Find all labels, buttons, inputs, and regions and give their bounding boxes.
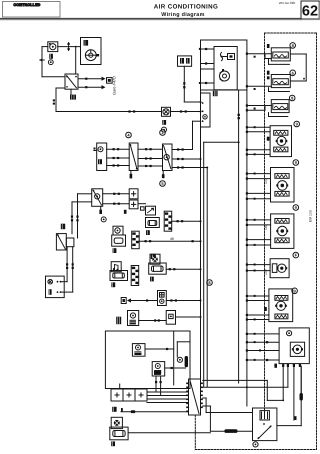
clock unit bbox=[111, 262, 121, 272]
connector strip CS2 bbox=[132, 231, 140, 249]
switch row junctions bbox=[113, 148, 184, 168]
wire CS2 to bus bbox=[139, 237, 200, 243]
fuse at unit base bbox=[213, 91, 218, 96]
aspirator label bbox=[116, 317, 121, 325]
clutch value label bbox=[49, 54, 53, 59]
svg-text:Wiring diagram: Wiring diagram bbox=[161, 12, 204, 18]
K3 pin bbox=[130, 171, 133, 179]
label 49 bbox=[151, 254, 156, 259]
display unit B bbox=[149, 263, 167, 274]
probe unit bbox=[166, 311, 200, 325]
page number box 62 bbox=[301, 1, 320, 20]
resistor pack 1 bbox=[246, 44, 290, 64]
node 8 circled on bus bbox=[207, 280, 213, 286]
node 8b circled bbox=[289, 95, 295, 101]
wire display B to bus bbox=[166, 268, 200, 270]
condenser fan bottom pins bbox=[247, 364, 301, 420]
svg-text:160: 160 bbox=[264, 224, 268, 230]
fuse cell block bbox=[111, 384, 147, 401]
wire connector top loop bbox=[203, 380, 283, 400]
wire CS1 to bus bbox=[172, 220, 201, 222]
svg-text:48: 48 bbox=[170, 237, 174, 241]
resistor pack 2 bbox=[246, 71, 290, 92]
node 8a circled bbox=[290, 43, 296, 49]
node M circled bbox=[177, 357, 182, 362]
label R bbox=[146, 230, 150, 235]
wire aspirator to probe bbox=[139, 319, 167, 321]
fan motor unit 3 bbox=[246, 214, 294, 249]
sensor pod bbox=[113, 226, 123, 235]
fuse block label bbox=[112, 407, 116, 412]
relay block K2 bbox=[201, 93, 211, 127]
node 6 circled bbox=[290, 70, 296, 76]
bus junction dots bbox=[200, 101, 248, 388]
fan symbol unit bbox=[150, 254, 160, 264]
svg-text:AIR CONDITIONING: AIR CONDITIONING bbox=[154, 4, 219, 11]
relay label BL bbox=[70, 89, 76, 99]
relay K4 bbox=[56, 234, 74, 250]
svg-text:EM 103: EM 103 bbox=[309, 210, 313, 222]
svg-text:100: 100 bbox=[264, 178, 268, 184]
label M bbox=[162, 120, 166, 125]
compressor clutch bbox=[48, 42, 58, 52]
feed line F pin marks bbox=[238, 114, 240, 119]
harness wires to connector bbox=[147, 376, 189, 403]
node 9c circled bbox=[293, 205, 299, 211]
pump motor unit bbox=[246, 259, 289, 278]
svg-text:100: 100 bbox=[264, 269, 268, 275]
arrow 1 tag bbox=[107, 78, 113, 84]
aspirator sensor bbox=[128, 311, 139, 326]
label B2 bbox=[150, 277, 154, 282]
wire junction down to relay bbox=[75, 46, 77, 74]
node X circled bbox=[253, 442, 258, 447]
node 5 circled bbox=[160, 181, 166, 187]
svg-text:CONTROLLED: CONTROLLED bbox=[14, 3, 41, 7]
antifreeze relay bbox=[253, 408, 277, 441]
node 9a circled bbox=[294, 121, 300, 127]
ignition switch symbol bbox=[220, 53, 234, 61]
relay R1 bbox=[65, 74, 78, 89]
bulkhead connector pins right bbox=[201, 383, 203, 409]
wire relay to main bus bbox=[53, 88, 162, 113]
ignition supply unit outline bbox=[201, 40, 247, 90]
svg-text:62: 62 bbox=[302, 4, 318, 20]
CONTROLLED title box bbox=[3, 2, 61, 18]
header rule bbox=[0, 19, 302, 20]
label C bbox=[111, 441, 115, 446]
condenser fan assembly bbox=[246, 328, 310, 364]
node F circled bbox=[293, 252, 299, 258]
svg-text:Gare F4TD: Gare F4TD bbox=[113, 76, 117, 95]
node 4 circled bbox=[126, 132, 132, 138]
main bus right bbox=[206, 168, 208, 388]
rheostat bbox=[138, 204, 156, 215]
harness label bbox=[154, 371, 161, 375]
wire twin sensor to bus bbox=[166, 299, 200, 301]
thermostat unit T1 bbox=[46, 276, 73, 298]
display unit A bbox=[110, 271, 128, 281]
wire TU down to relay block bbox=[183, 66, 200, 102]
node 1 circled bbox=[160, 130, 166, 136]
heater wires internal bbox=[145, 331, 190, 385]
compressor unit N bbox=[81, 38, 102, 65]
resistor module R bbox=[146, 218, 160, 228]
wire sensor to relay block bbox=[171, 110, 201, 112]
display unit C bbox=[110, 427, 128, 440]
relay right wire to fan motor bbox=[277, 366, 303, 426]
wire K2 to switch row bbox=[193, 121, 201, 149]
heater assembly box bbox=[105, 331, 190, 389]
switch S2 bbox=[163, 144, 173, 171]
fan motor unit 4 bbox=[246, 289, 293, 322]
svg-text:vnx·su·info: vnx·su·info bbox=[279, 1, 296, 5]
node B2 circled bbox=[101, 217, 106, 222]
connector strip CS1 bbox=[164, 211, 172, 231]
inline sensor M on bus bbox=[162, 107, 171, 116]
feed line F bbox=[238, 90, 240, 383]
heater fan sensor 1 bbox=[132, 344, 145, 357]
ignition unit internal feeds bbox=[199, 48, 214, 84]
control module TU bbox=[178, 56, 192, 66]
node 9d circled bbox=[292, 288, 298, 294]
relay K4 label bbox=[61, 224, 65, 230]
bulkhead connector pins left bbox=[186, 383, 188, 413]
thermal fuse capsule bbox=[185, 356, 188, 367]
twin sensor unit bbox=[158, 291, 167, 306]
node P below clutch bbox=[48, 60, 53, 65]
arrow feed 1 bbox=[78, 77, 106, 81]
supply bus bbox=[246, 90, 248, 406]
wire connector to relay feed 1 bbox=[203, 398, 253, 413]
S3 wires left pair bbox=[71, 194, 92, 238]
arrow feed left bbox=[121, 298, 157, 304]
blower control switch S1 bbox=[94, 143, 107, 171]
S3 pin bbox=[99, 206, 102, 214]
wire clutch to compressor bbox=[58, 43, 81, 51]
connector strip CS3 bbox=[131, 266, 139, 286]
label A2 bbox=[111, 282, 115, 287]
switch row wiring bbox=[107, 149, 208, 167]
main bus left bbox=[200, 90, 202, 385]
svg-text:F: F bbox=[295, 253, 298, 258]
heater fan sensor 2 bbox=[152, 362, 165, 376]
wire lower feed bbox=[121, 408, 189, 413]
page title bbox=[154, 4, 219, 18]
wire connector to bus bbox=[203, 386, 247, 388]
label A bbox=[113, 248, 117, 253]
relay K3 bbox=[129, 143, 138, 171]
wire connector to relay feed 2 bbox=[203, 406, 253, 433]
sensor pod body A bbox=[112, 235, 126, 246]
fan motor unit 2 bbox=[246, 168, 294, 203]
link resistor pack 1 to 2 bbox=[290, 54, 306, 81]
ignition motor C bbox=[220, 69, 230, 81]
bulkhead connector bbox=[189, 379, 201, 415]
connector C2 bbox=[129, 200, 138, 209]
S3 output wires right bbox=[103, 193, 130, 205]
S2 pin bbox=[162, 171, 165, 179]
connector C1 bbox=[129, 189, 138, 199]
wire clutch left branch bbox=[40, 47, 65, 77]
S3 sub pin bbox=[124, 210, 127, 214]
wire display C right bbox=[128, 432, 210, 434]
node B circled bbox=[162, 127, 167, 132]
AC switch S3 bbox=[92, 189, 103, 207]
fan unit 2 bbox=[111, 417, 122, 428]
resistor pack 3 bbox=[246, 100, 289, 117]
K4 wires down pair bbox=[66, 247, 74, 292]
arrow feed 2 bbox=[78, 85, 106, 89]
fan motor unit 1 bbox=[246, 126, 292, 157]
node 9b circled bbox=[293, 160, 299, 166]
dashed boundary engine bay bbox=[195, 33, 316, 450]
main bus mid bbox=[204, 142, 239, 387]
